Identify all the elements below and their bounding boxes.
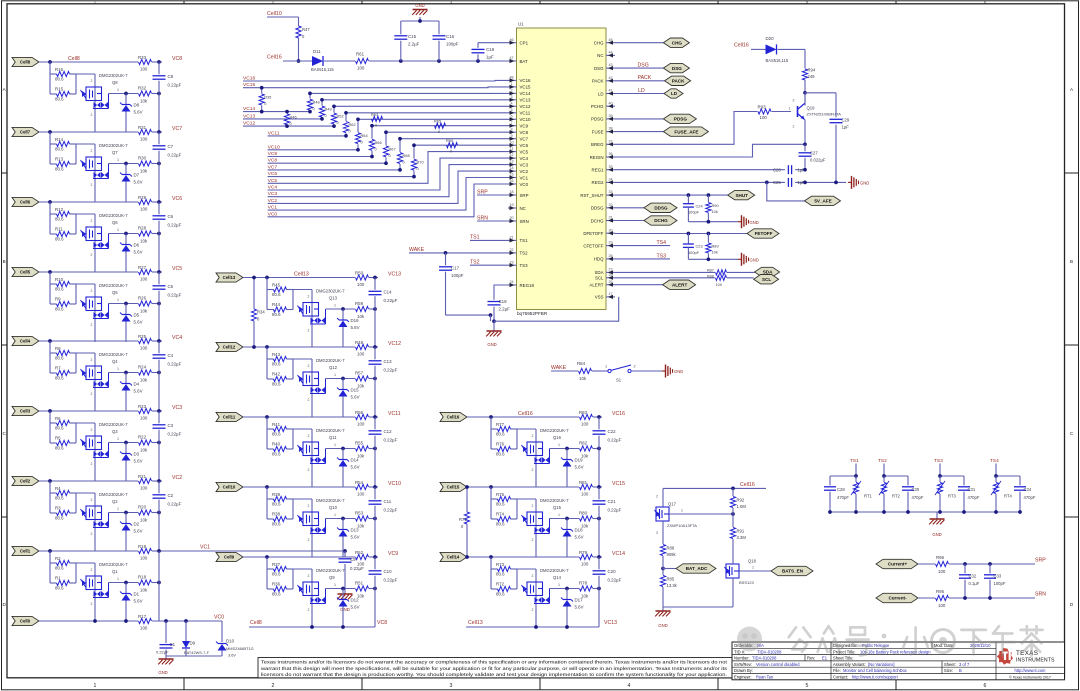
resistor R34 0 xyxy=(253,278,255,310)
svg-text:39: 39 xyxy=(608,114,612,118)
resistor R84 10k xyxy=(579,368,592,373)
svg-text:R75: R75 xyxy=(496,492,505,497)
junction xyxy=(489,415,493,419)
svg-text:HDQ: HDQ xyxy=(594,257,604,262)
svg-text:3.3M: 3.3M xyxy=(737,535,747,540)
svg-text:Rev:: Rev: xyxy=(807,656,815,661)
connector tag Cell14 xyxy=(440,552,467,561)
pin 36 REGIN xyxy=(590,152,615,160)
svg-text:R66: R66 xyxy=(375,140,382,145)
svg-text:R56: R56 xyxy=(355,410,364,415)
svg-text:RT2: RT2 xyxy=(892,493,901,498)
svg-text:D2: D2 xyxy=(134,522,140,527)
svg-text:R50: R50 xyxy=(355,270,364,275)
svg-text:PCHG: PCHG xyxy=(591,104,604,109)
svg-text:C32: C32 xyxy=(969,574,977,579)
wire net Cell13 bottom xyxy=(466,626,599,628)
svg-text:45: 45 xyxy=(608,38,612,42)
svg-text:80.6: 80.6 xyxy=(272,452,281,457)
svg-text:VC15: VC15 xyxy=(520,85,532,90)
svg-text:3 of 7: 3 of 7 xyxy=(959,662,970,667)
svg-text:GND: GND xyxy=(158,670,167,675)
capacitor C15 2.2uF xyxy=(400,21,402,34)
svg-text:DMG2302UK-7: DMG2302UK-7 xyxy=(99,283,128,288)
wire net Cell0 xyxy=(39,620,138,622)
capacitor C11 0.22uF xyxy=(369,500,382,502)
svg-text:DSG: DSG xyxy=(672,66,682,71)
svg-text:PDSG: PDSG xyxy=(674,117,687,122)
wire bus xyxy=(374,487,376,499)
wire drain xyxy=(109,512,139,514)
junction xyxy=(93,619,97,623)
wire net Cell2 xyxy=(39,480,138,482)
svg-text:R26: R26 xyxy=(138,296,147,301)
resistor R70 0 xyxy=(411,159,416,170)
junction xyxy=(341,517,345,521)
resistor R51 10k xyxy=(356,586,369,591)
svg-text:Q16: Q16 xyxy=(553,435,562,440)
wire net VC4 xyxy=(268,158,508,190)
wire to balance resistors xyxy=(266,487,268,519)
resistor R35 0 xyxy=(261,88,263,94)
svg-text:VC11: VC11 xyxy=(388,411,401,417)
junction xyxy=(343,549,347,553)
cell balancing block Q3 (Cell3) xyxy=(12,404,182,481)
svg-text:C26: C26 xyxy=(773,167,781,172)
wire net VSS return xyxy=(494,297,619,321)
svg-text:warrant that this design will: warrant that this design will meet the s… xyxy=(261,666,728,671)
wire net PDSG xyxy=(615,118,663,120)
svg-text:Q15: Q15 xyxy=(553,505,562,510)
wire net Cell16 xyxy=(467,416,579,418)
svg-text:80.6: 80.6 xyxy=(55,237,64,242)
svg-text:0.22µF: 0.22µF xyxy=(168,292,182,297)
svg-text:D7: D7 xyxy=(134,173,140,178)
zener diode D13 5.6V xyxy=(342,519,344,530)
svg-text:Cell16: Cell16 xyxy=(518,411,533,417)
ground GND flag xyxy=(662,370,666,372)
svg-text:Cell8: Cell8 xyxy=(20,60,31,65)
svg-text:VC12: VC12 xyxy=(520,104,532,109)
wire net Cell6 xyxy=(39,201,138,203)
svg-text:BAT_ADC: BAT_ADC xyxy=(686,566,708,571)
resistor R1 80.6 xyxy=(57,580,70,585)
svg-text:Cell1: Cell1 xyxy=(20,549,31,554)
svg-text:4: 4 xyxy=(510,101,512,105)
svg-text:C23: C23 xyxy=(696,244,703,249)
svg-text:D13: D13 xyxy=(351,528,360,533)
tag PACK xyxy=(665,76,691,85)
junction xyxy=(489,313,493,317)
svg-text:R19: R19 xyxy=(138,544,147,549)
pin 5 VC11 xyxy=(508,108,531,116)
svg-text:SRP: SRP xyxy=(520,193,529,198)
svg-text:R64: R64 xyxy=(361,133,369,138)
svg-text:R93: R93 xyxy=(758,105,767,110)
wire net VC3 xyxy=(268,165,508,197)
svg-text:R23: R23 xyxy=(138,404,147,409)
svg-text:100: 100 xyxy=(140,277,148,282)
svg-text:D17: D17 xyxy=(575,598,584,603)
wire to balance resistors xyxy=(266,417,268,449)
wire to balance resistors xyxy=(49,341,51,373)
wire base Q19 xyxy=(772,111,792,113)
svg-text:DMG2302UK-7: DMG2302UK-7 xyxy=(316,568,345,573)
wire net SRN xyxy=(918,597,935,599)
resistor R62 0 xyxy=(343,122,348,133)
svg-text:SCL: SCL xyxy=(762,277,771,282)
wire drain Q17 xyxy=(669,513,733,515)
svg-text:DMG2302UK-7: DMG2302UK-7 xyxy=(316,358,345,363)
svg-text:0.22µF: 0.22µF xyxy=(168,501,182,506)
svg-text:5.6V: 5.6V xyxy=(351,605,360,610)
capacitor C28 470pF xyxy=(829,476,831,485)
svg-text:1: 1 xyxy=(334,304,336,308)
wire net VC11 xyxy=(268,133,346,136)
wire net TS2 xyxy=(883,464,885,477)
svg-text:C22: C22 xyxy=(608,429,617,434)
resistor R8 80.6 xyxy=(57,350,70,355)
svg-text:GND: GND xyxy=(750,220,759,225)
svg-text:VC11: VC11 xyxy=(520,111,531,116)
svg-text:2: 2 xyxy=(91,79,93,83)
svg-text:80.6: 80.6 xyxy=(496,502,505,507)
svg-text:ALERT: ALERT xyxy=(589,283,603,288)
thermistor RT3 xyxy=(939,476,941,482)
svg-text:Q9: Q9 xyxy=(329,575,335,580)
svg-text:GND: GND xyxy=(415,3,424,8)
svg-text:249: 249 xyxy=(808,74,816,79)
junction xyxy=(565,447,569,451)
svg-text:2: 2 xyxy=(91,219,93,223)
svg-text:R67: R67 xyxy=(389,146,396,151)
resistor R17 100 xyxy=(139,618,152,623)
svg-text:0.22µF: 0.22µF xyxy=(168,361,182,366)
svg-text:1: 1 xyxy=(117,158,119,162)
wire net REGIN xyxy=(615,144,805,157)
svg-text:R40: R40 xyxy=(272,442,281,447)
svg-text:Cell10: Cell10 xyxy=(267,11,282,17)
svg-text:D20: D20 xyxy=(766,36,775,41)
cell balancing block Q7 (Cell7) xyxy=(12,125,182,202)
wire net Cell11 xyxy=(243,416,355,418)
resistor R83 100 xyxy=(580,414,593,419)
resistor R13 80.6 xyxy=(57,161,70,166)
wire to balance resistors xyxy=(49,202,51,234)
svg-text:10: 10 xyxy=(509,140,513,144)
wire net TS1 xyxy=(470,239,508,241)
svg-text:R27: R27 xyxy=(138,265,147,270)
svg-text:13.3k: 13.3k xyxy=(667,583,678,588)
resistor R26 10k xyxy=(139,301,152,306)
pin 39 PDSG xyxy=(591,114,615,122)
svg-text:R3: R3 xyxy=(55,506,61,511)
svg-text:VC6: VC6 xyxy=(172,196,182,202)
wire bus xyxy=(598,487,600,499)
cell balancing block Q6 (Cell6) xyxy=(12,195,182,272)
svg-text:Cell16: Cell16 xyxy=(740,482,755,488)
svg-text:80.6: 80.6 xyxy=(496,452,505,457)
svg-text:6: 6 xyxy=(984,683,987,689)
wire net REG18 xyxy=(494,285,508,300)
wire net Cell14 xyxy=(467,556,579,558)
svg-text:R90: R90 xyxy=(712,203,720,208)
svg-text:100: 100 xyxy=(140,67,148,72)
svg-text:80.6: 80.6 xyxy=(496,572,505,577)
svg-text:R59: R59 xyxy=(355,301,364,306)
svg-text:FUSE: FUSE xyxy=(592,129,604,134)
transistor Q8 DMG2302UK-7 xyxy=(94,74,96,132)
svg-text:R10: R10 xyxy=(55,277,64,282)
svg-text:CHG: CHG xyxy=(594,41,604,46)
svg-text:10k: 10k xyxy=(140,239,148,244)
pin 37 BREG xyxy=(591,139,615,147)
capacitor C6 0.22uF xyxy=(153,215,166,217)
svg-text:80.6: 80.6 xyxy=(272,292,281,297)
wire net Cell10 xyxy=(267,16,299,18)
svg-text:R28: R28 xyxy=(138,226,147,231)
svg-text:10k: 10k xyxy=(140,378,148,383)
diode D20 BAS516,115 xyxy=(766,44,777,54)
svg-text:D3: D3 xyxy=(134,452,140,457)
wire drain xyxy=(326,378,356,380)
svg-text:10s-16s Battery Pack reference: 10s-16s Battery Pack reference design xyxy=(860,649,931,654)
resistor R77 80.6 xyxy=(498,426,511,431)
svg-text:DMG2302UK-7: DMG2302UK-7 xyxy=(316,289,345,294)
svg-text:2: 2 xyxy=(91,392,93,396)
title block xyxy=(732,642,1065,680)
connector tag Cell7 xyxy=(12,127,39,136)
svg-text:80.6: 80.6 xyxy=(496,432,505,437)
pin 29 CFETOFF xyxy=(583,241,615,249)
svg-text:GND: GND xyxy=(487,342,496,347)
tag DDSG xyxy=(644,203,677,212)
transistor Q16 DMG2302UK-7 xyxy=(535,429,537,487)
wire net BREG xyxy=(615,112,758,145)
svg-text:Cell3: Cell3 xyxy=(20,409,31,414)
junction xyxy=(803,168,807,172)
svg-text:0.22µF: 0.22µF xyxy=(384,577,398,582)
svg-text:2: 2 xyxy=(91,149,93,153)
svg-text:C24: C24 xyxy=(696,203,704,208)
svg-text:VC14: VC14 xyxy=(612,551,625,557)
resistor R33 100 xyxy=(139,59,152,64)
pin 44 NC xyxy=(597,51,615,59)
svg-text:40: 40 xyxy=(608,101,612,105)
svg-text:R37: R37 xyxy=(272,562,281,567)
resistor R73 80.6 xyxy=(498,566,511,571)
svg-text:3.6V: 3.6V xyxy=(228,652,236,657)
svg-text:2: 2 xyxy=(308,398,310,402)
svg-text:R30: R30 xyxy=(138,156,147,161)
capacitor C33 100pF xyxy=(989,564,991,573)
resistor R61 100 xyxy=(356,58,369,63)
svg-text:SCL: SCL xyxy=(595,276,604,281)
resistor R20 10k xyxy=(139,510,152,515)
pin 41 LD xyxy=(598,89,615,97)
svg-text:DMG2302UK-7: DMG2302UK-7 xyxy=(99,213,128,218)
svg-text:Engineer:: Engineer: xyxy=(734,675,752,680)
svg-text:DCHG: DCHG xyxy=(654,218,668,223)
junction xyxy=(310,625,314,629)
svg-text:100: 100 xyxy=(938,569,946,574)
svg-text:1: 1 xyxy=(117,577,119,581)
transistor Q3 DMG2302UK-7 xyxy=(94,423,96,481)
wire net TS1 xyxy=(855,464,857,477)
resistor R15 80.6 xyxy=(57,91,70,96)
svg-text:R9: R9 xyxy=(55,297,61,302)
capacitor C1 0.22uF xyxy=(165,621,167,643)
svg-text:470pF: 470pF xyxy=(912,495,924,500)
connector tag Cell15 xyxy=(440,482,467,491)
resistor R47 0 xyxy=(296,26,301,38)
junction xyxy=(265,415,269,419)
svg-text:C15: C15 xyxy=(408,34,417,39)
svg-text:R74: R74 xyxy=(496,512,505,517)
svg-text:2: 2 xyxy=(308,608,310,612)
svg-text:Q6: Q6 xyxy=(112,220,118,225)
resistor R39 80.6 xyxy=(274,496,287,501)
svg-text:Cell6: Cell6 xyxy=(20,200,31,205)
svg-text:TS3: TS3 xyxy=(657,254,667,260)
svg-text:5.6V: 5.6V xyxy=(134,389,143,394)
junction xyxy=(731,487,735,491)
svg-text:R47: R47 xyxy=(302,27,310,32)
svg-text:80.6: 80.6 xyxy=(272,312,281,317)
svg-text:VC8: VC8 xyxy=(172,56,182,62)
svg-text:2: 2 xyxy=(91,568,93,572)
svg-text:R12: R12 xyxy=(55,207,64,212)
cell balancing block Q11 (Cell11) xyxy=(216,410,401,487)
svg-text:CHG: CHG xyxy=(672,40,683,45)
svg-text:80.6: 80.6 xyxy=(55,586,64,591)
pin 8 VC8 xyxy=(508,127,529,135)
svg-text:DMG2302UK-7: DMG2302UK-7 xyxy=(540,428,569,433)
svg-text:2: 2 xyxy=(91,498,93,502)
svg-text:TS1: TS1 xyxy=(470,235,480,241)
wire net VC5 xyxy=(268,152,508,184)
svg-text:2.2µF: 2.2µF xyxy=(499,306,511,311)
svg-text:REGIN: REGIN xyxy=(590,155,604,160)
svg-text:2: 2 xyxy=(91,289,93,293)
resistor R44 80.6 xyxy=(274,307,287,312)
svg-text:R79: R79 xyxy=(579,550,588,555)
svg-text:5.6V: 5.6V xyxy=(575,535,584,540)
pin 38 FUSE xyxy=(592,127,615,135)
svg-text:11: 11 xyxy=(510,147,514,151)
svg-text:D12: D12 xyxy=(351,598,360,603)
svg-text:RT3: RT3 xyxy=(948,493,957,498)
wire net Cell15 xyxy=(467,486,579,488)
svg-text:PDSG: PDSG xyxy=(591,117,604,122)
wire net Cell8 xyxy=(39,61,138,63)
wire net VC12 xyxy=(243,125,334,127)
wire bus xyxy=(158,132,160,144)
wire net VC2 xyxy=(268,171,508,203)
svg-text:0.22µF: 0.22µF xyxy=(384,367,398,372)
wire bus xyxy=(374,557,376,569)
junction xyxy=(124,302,128,306)
svg-text:R62: R62 xyxy=(349,122,356,127)
svg-text:RT1: RT1 xyxy=(864,493,873,498)
svg-text:C31: C31 xyxy=(968,487,976,492)
connector tag Cell12 xyxy=(216,342,243,351)
svg-text:33: 33 xyxy=(608,190,612,194)
svg-text:Cell15: Cell15 xyxy=(447,485,460,490)
wire to balance resistors xyxy=(49,411,51,443)
capacitor C34 470pF xyxy=(1019,476,1021,485)
svg-text:VC9: VC9 xyxy=(520,124,529,129)
svg-text:R76: R76 xyxy=(496,442,505,447)
wire net FUSE xyxy=(615,131,663,133)
zener diode D8 5.6V xyxy=(125,94,127,105)
resistor R93 100 xyxy=(758,109,771,114)
capacitor C31 470pF xyxy=(963,476,965,485)
svg-text:R88: R88 xyxy=(707,274,714,278)
svg-text:VC16: VC16 xyxy=(612,411,625,417)
svg-text:5: 5 xyxy=(510,108,512,112)
svg-text:B: B xyxy=(959,668,962,673)
svg-text:R77: R77 xyxy=(496,422,505,427)
svg-text:1: 1 xyxy=(558,583,560,587)
svg-text:DDSG: DDSG xyxy=(654,206,668,211)
svg-text:10k: 10k xyxy=(140,99,148,104)
svg-text:R34: R34 xyxy=(257,310,265,315)
transistor Q12 DMG2302UK-7 xyxy=(311,359,313,417)
wire drain xyxy=(550,448,580,450)
junction xyxy=(124,371,128,375)
svg-text:80.6: 80.6 xyxy=(272,572,281,577)
resistor R74 80.6 xyxy=(498,516,511,521)
svg-text:Cell8: Cell8 xyxy=(250,620,262,626)
wire drain xyxy=(109,233,139,235)
pin 28 HDQ xyxy=(594,254,615,262)
svg-text:0.22µF: 0.22µF xyxy=(608,507,622,512)
tag FUSE_AFE xyxy=(663,127,708,136)
junction xyxy=(265,276,269,280)
wire net REG1 xyxy=(615,169,785,171)
resistor R25 100 xyxy=(139,338,152,343)
svg-text:C6: C6 xyxy=(168,214,174,219)
svg-text:2: 2 xyxy=(91,358,93,362)
svg-text:R39: R39 xyxy=(272,492,281,497)
junction xyxy=(687,193,691,197)
svg-text:VC10: VC10 xyxy=(520,117,532,122)
tag SCL xyxy=(754,275,779,284)
svg-text:Q4: Q4 xyxy=(112,359,118,364)
svg-text:Project Title:: Project Title: xyxy=(833,649,856,654)
svg-text:D15: D15 xyxy=(351,388,360,393)
svg-text:BAS516,115: BAS516,115 xyxy=(311,67,334,72)
resistor R38 80.6 xyxy=(274,516,287,521)
tag Current+ xyxy=(876,559,918,568)
tag SDA xyxy=(755,267,780,276)
svg-text:NC: NC xyxy=(520,206,526,211)
svg-text:TS2: TS2 xyxy=(520,251,529,256)
svg-text:Contact:: Contact: xyxy=(833,675,848,680)
pin 1 VC15 xyxy=(508,82,531,90)
svg-text:DMG2302UK-7: DMG2302UK-7 xyxy=(99,422,128,427)
resistor R55 10k xyxy=(356,446,369,451)
svg-text:R24: R24 xyxy=(138,365,147,370)
svg-text:C8: C8 xyxy=(168,74,174,79)
cell balancing block Q15 (Cell15) xyxy=(440,480,625,557)
wire to gnd junction xyxy=(446,314,491,316)
resistor R43 80.6 xyxy=(274,356,287,361)
svg-text:0.22µF: 0.22µF xyxy=(168,82,182,87)
wire gnd rail xyxy=(166,655,222,657)
svg-text:WAKE: WAKE xyxy=(409,247,425,253)
